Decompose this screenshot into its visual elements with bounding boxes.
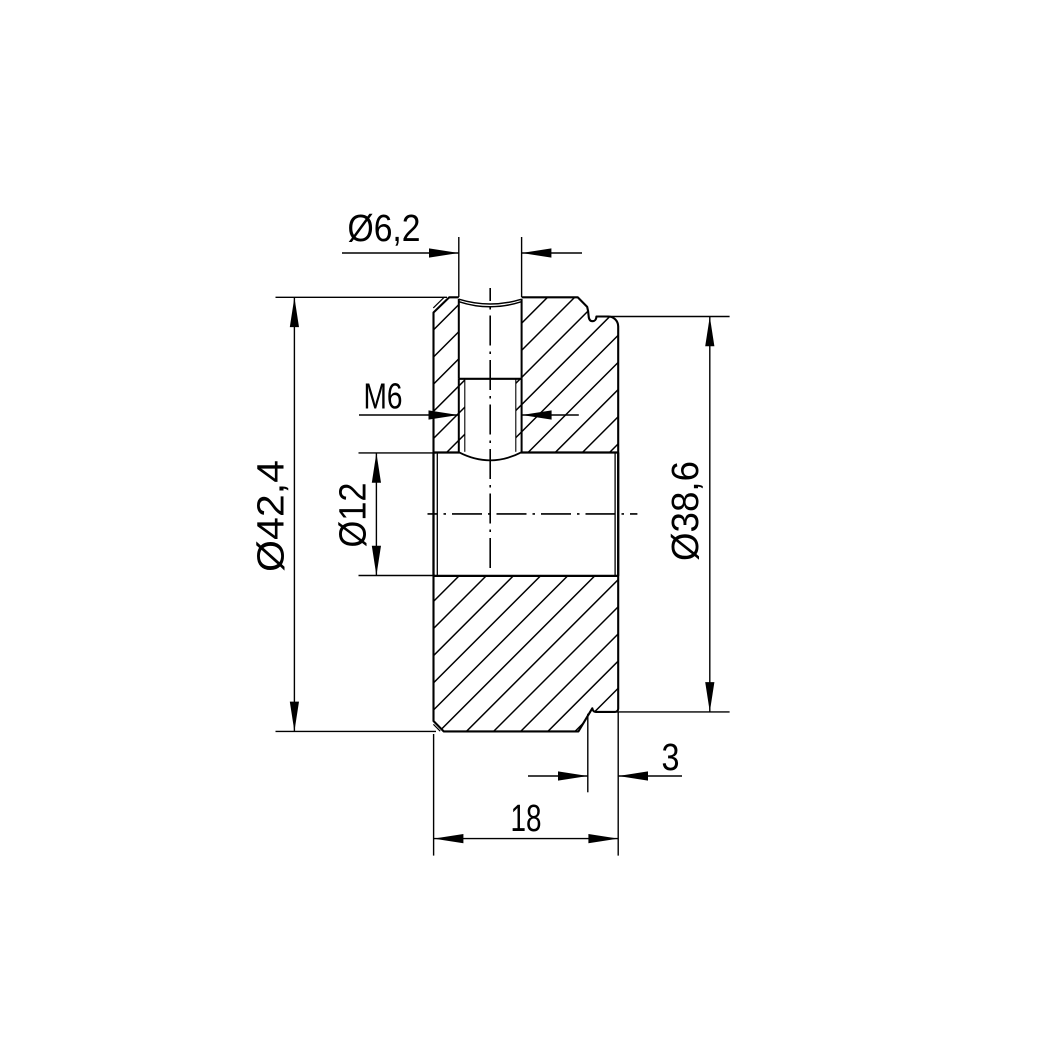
dimension Ø12 extension lines <box>359 452 437 454</box>
svg-text:M6: M6 <box>364 376 403 417</box>
dimension Ø6,2 line <box>342 252 459 254</box>
counterbore entry arc outer <box>459 299 522 304</box>
top-left chamfer edge-break line <box>433 297 444 308</box>
dimension 3 arrowheads <box>558 771 588 780</box>
dimension 18 arrowheads <box>434 834 464 843</box>
svg-text:Ø12: Ø12 <box>333 483 375 548</box>
dimension Ø6,2 extension lines <box>458 237 460 297</box>
hatching upper-right block <box>516 297 618 452</box>
dimension Ø42,4 arrowheads <box>290 297 299 327</box>
counterbore entry arc inner <box>459 302 521 307</box>
thread M6 major lines <box>458 379 460 452</box>
dimension Ø38,6 arrowheads <box>705 317 714 347</box>
dimension M6 arrowheads <box>429 410 459 419</box>
dimension Ø38,6 extension lines <box>596 316 730 318</box>
left face edge through bore <box>432 453 434 576</box>
thread M6 minor (drill) lines <box>464 379 466 452</box>
dimension 18 line <box>434 838 619 840</box>
dimension Ø12 line <box>375 453 377 576</box>
dimension M6 line <box>359 414 458 416</box>
hatching bottom block <box>434 576 619 732</box>
dimension Ø12 arrowheads <box>372 453 381 483</box>
dimension 3 line <box>528 775 588 777</box>
hatching upper-left block <box>434 297 465 452</box>
part outline (section silhouette) <box>434 297 619 731</box>
bore Ø12 top edge <box>434 451 460 453</box>
dimension Ø42,4 extension lines <box>276 296 448 298</box>
dimension Ø42,4 line <box>293 297 295 731</box>
svg-text:Ø6,2: Ø6,2 <box>348 208 421 250</box>
right face edge through bore <box>617 453 619 576</box>
counterbore Ø6.2 walls <box>458 299 460 379</box>
svg-text:18: 18 <box>511 798 542 840</box>
thread bottom opening arc into bore <box>459 452 522 460</box>
svg-text:Ø38,6: Ø38,6 <box>665 461 707 561</box>
counterbore bottom shoulder <box>459 378 522 380</box>
dimension 18 extension lines <box>433 734 435 856</box>
right bore entry chamfer line <box>614 453 616 576</box>
svg-text:3: 3 <box>662 737 680 779</box>
centerline hole axis (vertical) <box>489 288 491 573</box>
left bore entry chamfer line <box>436 453 438 576</box>
bottom-left chamfer edge-break line <box>433 724 440 731</box>
bore Ø12 bottom edge <box>434 575 619 577</box>
centerline part axis (horizontal) <box>428 513 638 515</box>
svg-text:Ø42,4: Ø42,4 <box>251 460 293 572</box>
dimension Ø38,6 line <box>709 317 711 712</box>
dimension Ø6,2 arrowheads <box>429 248 459 257</box>
dimension 3 extension line <box>587 714 589 793</box>
